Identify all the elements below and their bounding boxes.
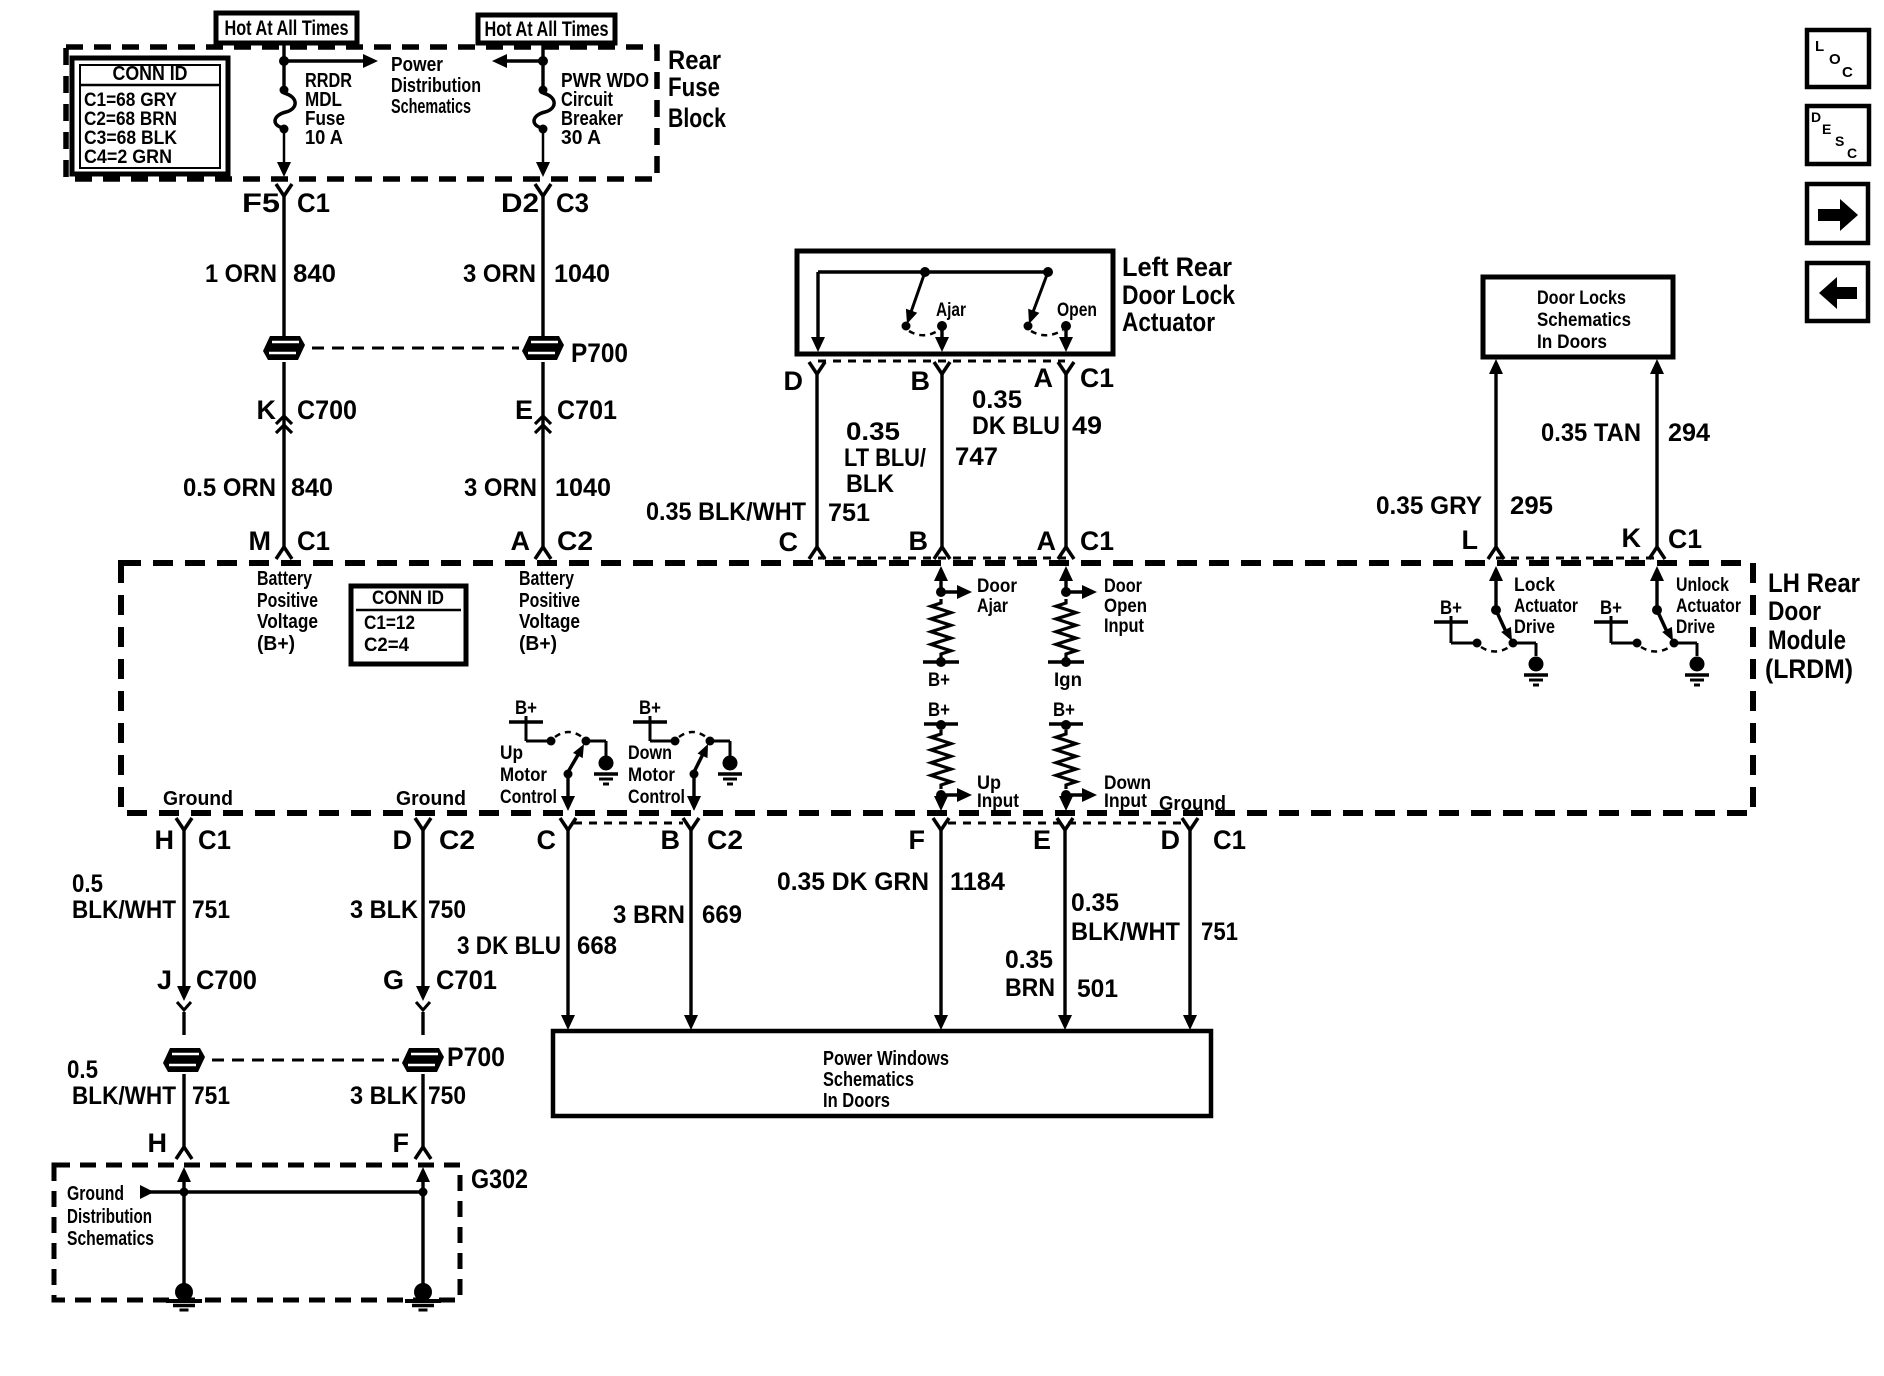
svg-text:LT BLU/: LT BLU/ [844,444,926,472]
svg-text:3 ORN: 3 ORN [464,474,537,502]
svg-text:Schematics: Schematics [823,1069,914,1091]
svg-text:Ajar: Ajar [977,596,1009,617]
svg-text:C4=2 GRN: C4=2 GRN [84,147,172,168]
svg-text:751: 751 [1201,918,1238,946]
svg-text:0.35 DK GRN: 0.35 DK GRN [777,868,929,896]
svg-text:Door: Door [1104,576,1143,597]
svg-text:C1: C1 [198,825,231,855]
svg-text:Down: Down [628,743,672,764]
svg-text:Power: Power [391,54,443,76]
svg-text:CONN ID: CONN ID [113,63,188,85]
svg-text:C: C [537,825,557,855]
svg-text:Control: Control [500,787,557,808]
svg-text:K: K [1622,523,1642,553]
svg-text:A: A [1037,526,1057,556]
svg-text:C: C [1847,145,1857,161]
svg-text:D: D [1811,109,1821,125]
svg-text:3 ORN: 3 ORN [463,260,536,288]
svg-text:0.35: 0.35 [1071,889,1119,917]
svg-text:1184: 1184 [950,868,1005,896]
svg-text:Door Lock: Door Lock [1122,280,1236,310]
svg-text:Schematics: Schematics [1537,310,1631,331]
svg-text:Actuator: Actuator [1514,596,1578,617]
svg-text:D: D [784,366,804,396]
svg-text:Drive: Drive [1514,617,1555,638]
svg-text:Hot At All Times: Hot At All Times [485,18,609,41]
svg-text:Distribution: Distribution [391,75,481,97]
svg-text:Up: Up [500,743,523,764]
svg-text:Motor: Motor [628,765,676,786]
svg-text:J: J [157,965,172,995]
svg-text:D2: D2 [501,188,539,218]
svg-text:Voltage: Voltage [519,611,580,633]
svg-text:1040: 1040 [555,474,611,502]
svg-text:750: 750 [428,896,466,924]
svg-text:C1: C1 [297,526,330,556]
svg-text:C700: C700 [297,395,357,425]
svg-text:0.5 ORN: 0.5 ORN [183,474,276,502]
svg-text:C700: C700 [196,965,257,995]
svg-text:Open: Open [1104,596,1147,617]
svg-text:BLK: BLK [846,470,894,498]
svg-text:Drive: Drive [1676,617,1715,638]
svg-text:0.5: 0.5 [72,870,103,898]
svg-text:Unlock: Unlock [1676,575,1729,596]
svg-text:Input: Input [1104,791,1148,812]
svg-text:C1: C1 [1213,825,1246,855]
svg-text:P700: P700 [571,338,628,368]
svg-text:C: C [1842,64,1853,81]
svg-text:A: A [1034,363,1054,393]
svg-text:B+: B+ [1053,700,1075,721]
svg-text:In Doors: In Doors [823,1090,890,1112]
svg-text:(B+): (B+) [257,633,295,655]
svg-text:751: 751 [828,499,870,527]
svg-text:0.35 BLK/WHT: 0.35 BLK/WHT [646,498,806,526]
svg-text:750: 750 [428,1082,466,1110]
svg-text:M: M [249,526,272,556]
svg-text:3 BLK: 3 BLK [350,896,418,924]
svg-text:Motor: Motor [500,765,548,786]
svg-text:Battery: Battery [519,568,575,590]
svg-text:H: H [148,1128,168,1158]
svg-text:Input: Input [977,791,1020,812]
svg-text:B+: B+ [928,670,950,691]
svg-text:751: 751 [192,896,230,924]
svg-text:Ajar: Ajar [936,300,966,321]
svg-text:840: 840 [291,474,333,502]
svg-text:DK BLU: DK BLU [972,412,1060,440]
svg-text:D: D [393,825,413,855]
svg-text:L: L [1462,525,1479,555]
svg-text:Positive: Positive [519,590,580,612]
svg-text:0.35: 0.35 [846,418,900,446]
svg-text:G: G [383,965,404,995]
svg-text:C2: C2 [707,825,743,855]
svg-text:S: S [1835,133,1844,149]
svg-text:C2=68 BRN: C2=68 BRN [84,109,177,130]
svg-text:F: F [909,825,926,855]
svg-text:LH Rear: LH Rear [1768,568,1860,598]
svg-text:H: H [155,825,175,855]
svg-text:E: E [1033,825,1051,855]
svg-text:Door: Door [977,576,1018,597]
svg-text:Power Windows: Power Windows [823,1048,949,1070]
svg-text:E: E [515,395,533,425]
svg-text:C1: C1 [297,188,330,218]
svg-text:Fuse: Fuse [668,72,720,102]
svg-text:B: B [661,825,681,855]
svg-text:In Doors: In Doors [1537,332,1607,353]
svg-text:C1: C1 [1080,363,1114,393]
svg-text:D: D [1161,825,1181,855]
svg-text:F5: F5 [242,188,280,218]
svg-text:BLK/WHT: BLK/WHT [72,896,176,924]
svg-text:B: B [911,366,931,396]
svg-text:B+: B+ [1440,598,1462,619]
svg-text:C3=68 BLK: C3=68 BLK [84,128,177,149]
svg-text:10 A: 10 A [305,127,343,149]
svg-text:B+: B+ [639,698,661,719]
svg-text:B+: B+ [1600,598,1622,619]
svg-text:K: K [257,395,277,425]
svg-text:751: 751 [192,1082,230,1110]
svg-text:P700: P700 [447,1042,505,1072]
svg-text:A: A [511,526,531,556]
svg-text:1040: 1040 [554,260,610,288]
svg-text:668: 668 [577,932,617,960]
svg-text:C1: C1 [1668,524,1702,554]
svg-text:(B+): (B+) [519,633,557,655]
svg-text:30 A: 30 A [561,127,601,149]
svg-text:Schematics: Schematics [391,96,471,118]
svg-text:B: B [909,526,929,556]
svg-text:Actuator: Actuator [1122,307,1215,337]
svg-text:C701: C701 [436,965,497,995]
svg-text:294: 294 [1668,419,1710,447]
svg-text:0.35 GRY: 0.35 GRY [1376,492,1482,520]
svg-text:Ground: Ground [396,788,466,810]
svg-text:E: E [1822,121,1831,137]
svg-text:C1=12: C1=12 [364,613,415,634]
svg-text:C: C [779,527,799,557]
svg-text:C2=4: C2=4 [364,635,409,656]
svg-text:Hot At All Times: Hot At All Times [225,17,349,40]
svg-text:Ign: Ign [1054,670,1082,691]
svg-text:501: 501 [1077,975,1118,1003]
svg-text:840: 840 [293,260,336,288]
svg-text:0.35: 0.35 [972,386,1022,414]
svg-text:Lock: Lock [1514,575,1555,596]
svg-text:Ground: Ground [163,788,233,810]
svg-text:669: 669 [702,901,742,929]
svg-text:C1=68 GRY: C1=68 GRY [84,90,177,111]
svg-text:C2: C2 [439,825,475,855]
svg-text:BLK/WHT: BLK/WHT [1071,918,1180,946]
svg-text:C3: C3 [556,188,589,218]
svg-text:Open: Open [1057,300,1097,321]
svg-text:F: F [393,1128,410,1158]
svg-text:295: 295 [1510,492,1553,520]
svg-text:CONN ID: CONN ID [372,588,444,609]
svg-text:BRN: BRN [1005,974,1055,1002]
svg-text:Rear: Rear [668,45,721,75]
svg-text:B+: B+ [928,700,950,721]
svg-text:B+: B+ [515,698,537,719]
svg-text:0.35 TAN: 0.35 TAN [1541,419,1641,447]
svg-text:0.5: 0.5 [67,1056,98,1084]
svg-text:C1: C1 [1080,526,1114,556]
svg-text:L: L [1815,38,1824,55]
svg-text:Battery: Battery [257,568,313,590]
svg-text:49: 49 [1072,412,1102,440]
svg-text:Distribution: Distribution [67,1206,152,1228]
svg-text:G302: G302 [471,1164,528,1194]
svg-text:(LRDM): (LRDM) [1765,654,1853,684]
svg-text:O: O [1829,51,1841,68]
svg-text:C701: C701 [557,395,617,425]
svg-text:3 BRN: 3 BRN [613,901,685,929]
svg-text:Control: Control [628,787,685,808]
svg-text:747: 747 [955,443,998,471]
svg-text:0.35: 0.35 [1005,946,1053,974]
svg-text:Door Locks: Door Locks [1537,288,1626,309]
svg-text:Block: Block [668,103,727,133]
svg-text:Input: Input [1104,616,1145,637]
svg-text:3 DK BLU: 3 DK BLU [457,932,561,960]
svg-text:1 ORN: 1 ORN [205,260,277,288]
svg-text:Ground: Ground [67,1183,124,1205]
svg-text:Door: Door [1768,596,1821,626]
svg-text:Ground: Ground [1159,793,1226,815]
svg-text:Module: Module [1768,625,1846,655]
svg-text:Actuator: Actuator [1676,596,1741,617]
svg-text:C2: C2 [557,526,593,556]
svg-text:3 BLK: 3 BLK [350,1082,418,1110]
svg-text:Voltage: Voltage [257,611,318,633]
svg-text:BLK/WHT: BLK/WHT [72,1082,176,1110]
svg-text:Schematics: Schematics [67,1228,154,1250]
svg-text:Left Rear: Left Rear [1122,252,1232,282]
svg-text:Positive: Positive [257,590,318,612]
